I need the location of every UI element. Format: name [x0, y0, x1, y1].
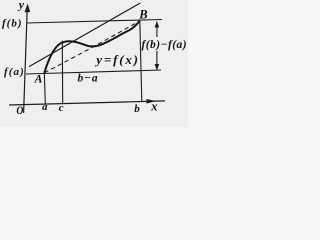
- svg-text:b: b: [134, 103, 140, 115]
- svg-text:y=f(x): y=f(x): [94, 52, 139, 67]
- svg-text:A: A: [34, 71, 43, 85]
- svg-text:y: y: [17, 0, 25, 12]
- svg-text:O: O: [16, 103, 23, 117]
- svg-text:B: B: [138, 8, 147, 22]
- svg-text:f(b)−f(a): f(b)−f(a): [142, 39, 188, 51]
- svg-text:b−a: b−a: [78, 73, 99, 85]
- svg-text:c: c: [59, 102, 64, 114]
- svg-text:x: x: [150, 100, 157, 114]
- svg-text:a: a: [42, 101, 48, 113]
- svg-text:f(b): f(b): [2, 18, 23, 30]
- svg-text:f(a): f(a): [4, 66, 25, 78]
